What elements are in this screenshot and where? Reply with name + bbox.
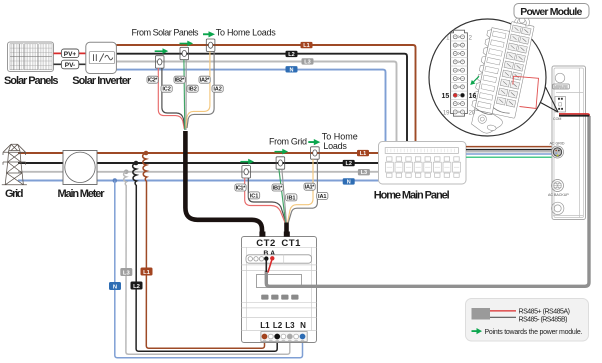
wire meter tap L1 brown coil <box>143 153 265 348</box>
wire meter tap L3 gray coil <box>124 172 290 354</box>
label badge solar N <box>286 66 298 73</box>
wire RS485- black <box>559 115 589 117</box>
svg-text:16: 16 <box>469 93 477 100</box>
svg-text:L3: L3 <box>285 321 295 330</box>
node pin 15 red <box>453 93 457 97</box>
grid tower <box>2 144 27 185</box>
svg-text:RS485- (RS485B): RS485- (RS485B) <box>519 317 568 324</box>
svg-text:AC GRID: AC GRID <box>550 141 565 145</box>
svg-text:L3: L3 <box>123 271 131 277</box>
svg-text:N: N <box>347 179 351 185</box>
label tag IA1 <box>317 192 328 200</box>
CT IC2* on solar L3 <box>155 48 169 68</box>
wire CT IA2 secondary pair <box>186 52 210 129</box>
legend box <box>466 299 589 342</box>
svg-text:IA2: IA2 <box>213 87 222 93</box>
red callout quad <box>513 76 539 108</box>
label tag IA2 <box>212 85 223 93</box>
label badge grid N <box>343 178 355 185</box>
wire B to RS485 cable <box>265 259 267 272</box>
main meter M1 <box>63 151 97 185</box>
label badge L3 on tap wire <box>120 268 132 277</box>
node pin 16 black <box>461 93 465 97</box>
svg-text:IC1: IC1 <box>250 193 259 199</box>
svg-text:IB1: IB1 <box>287 195 296 201</box>
CT IC1* on grid L3 <box>240 159 254 178</box>
wire AC grid bundle PE green <box>466 156 553 158</box>
svg-text:COM: COM <box>553 117 561 121</box>
node B terminal black dot <box>264 256 268 260</box>
wire PV+ red <box>54 52 86 54</box>
label Power Module box <box>514 4 589 19</box>
svg-text:L1: L1 <box>260 321 270 330</box>
label badge solar L2 <box>286 51 298 58</box>
wire meter tap N blue <box>115 181 303 358</box>
svg-text:Solar Panels: Solar Panels <box>4 75 59 87</box>
header From Solar Panels arrow To Home Loads <box>132 27 277 37</box>
node A terminal red dot <box>270 256 274 260</box>
svg-text:L1: L1 <box>303 43 309 49</box>
svg-text:IC1*: IC1* <box>236 186 246 192</box>
wire AC grid bundle L2 <box>466 149 553 151</box>
CT IA2* on solar L1 <box>206 39 215 51</box>
svg-text:CT1: CT1 <box>281 238 301 249</box>
label badge solar L3 <box>302 58 314 65</box>
svg-text:Grid: Grid <box>5 188 24 200</box>
label tag IC2 <box>161 85 172 93</box>
svg-text:19: 19 <box>443 111 450 117</box>
label badge solar L1 <box>301 42 313 49</box>
wire solar bus L1 <box>117 45 416 143</box>
label tag IB1 <box>286 194 297 202</box>
node meter L3 terminal <box>287 334 293 340</box>
svg-text:To Home: To Home <box>322 132 358 142</box>
node L3 junction <box>124 170 129 175</box>
svg-text:N: N <box>290 67 294 73</box>
svg-text:MEASURE: MEASURE <box>554 85 568 89</box>
svg-text:Power Module: Power Module <box>520 6 582 18</box>
CT IA1* on grid L1 <box>311 147 320 159</box>
svg-text:IA1: IA1 <box>318 194 327 200</box>
svg-text:PV-: PV- <box>65 62 75 69</box>
svg-text:Points towards the power modul: Points towards the power module. <box>485 329 583 336</box>
solar panels icon <box>8 42 54 72</box>
meter buttons <box>261 295 298 300</box>
label PV+ <box>61 49 78 58</box>
svg-text:IB1*: IB1* <box>273 186 283 192</box>
wire PV- black <box>54 63 86 65</box>
wire grid bus L3 <box>18 171 379 173</box>
connector 3D drawing <box>467 9 536 138</box>
label badge L1 on tap wire <box>141 268 153 277</box>
meter top terminal strip <box>246 255 312 263</box>
label tag IA1* <box>304 183 315 191</box>
svg-text:IC2*: IC2* <box>148 78 158 84</box>
wire A to RS485 cable red <box>268 258 272 272</box>
label tag IB2* <box>174 76 185 84</box>
svg-text:PV+: PV+ <box>64 51 77 58</box>
label tag IC1* <box>235 184 246 192</box>
svg-text:L3: L3 <box>361 170 367 176</box>
wire CT IC2 secondary pair <box>158 68 184 129</box>
wire RS485 gray cable from meter to COM <box>266 116 589 286</box>
svg-text:IC2: IC2 <box>162 87 171 93</box>
home main panel <box>379 142 467 185</box>
label meter L1 L2 L3 N <box>260 321 306 330</box>
svg-text:IB2: IB2 <box>188 87 197 93</box>
svg-text:L2: L2 <box>345 161 351 167</box>
connector COM pins <box>558 98 563 110</box>
svg-text:L1: L1 <box>360 151 366 157</box>
wire AC grid bundle L1 <box>466 146 553 148</box>
svg-text:IB2*: IB2* <box>175 78 185 84</box>
label badge grid L3 <box>358 169 370 176</box>
svg-text:RS485+ (RS485A): RS485+ (RS485A) <box>519 308 571 315</box>
solar inverter U1 <box>86 42 117 73</box>
label badge grid L2 <box>343 160 355 167</box>
svg-text:From Grid: From Grid <box>269 136 307 146</box>
cable CT1 entry <box>284 232 290 237</box>
green arrow to pin 16 <box>470 76 479 85</box>
wire solar bus L3 <box>117 62 397 143</box>
svg-text:Loads: Loads <box>323 141 347 151</box>
label tag IC1 <box>249 192 260 200</box>
cable CT2 thick <box>185 131 262 237</box>
node meter L1 terminal <box>262 334 268 340</box>
svg-text:L1: L1 <box>143 270 151 276</box>
svg-text:IA1*: IA1* <box>305 185 315 191</box>
svg-text:L2: L2 <box>288 52 294 58</box>
meter CT device <box>242 237 317 343</box>
leader lines to COM <box>541 87 559 112</box>
wire grid bus N <box>18 180 379 182</box>
wire solar bus L2 <box>117 54 408 143</box>
wire CT IA1 secondary pair <box>288 159 313 222</box>
label badge L2 on tap wire <box>131 282 143 291</box>
svg-text:IA2*: IA2* <box>200 78 210 84</box>
wire meter tap L2 black coil <box>133 163 278 351</box>
wire CT IB1 secondary pair <box>279 169 286 222</box>
node L2 junction <box>134 161 139 166</box>
meter bottom terminal strip <box>261 332 307 342</box>
label badge grid L1 <box>357 150 369 157</box>
label PV- <box>61 60 78 69</box>
svg-text:N: N <box>300 321 306 330</box>
connector pinout 2D <box>451 30 468 116</box>
wire CT IB2 secondary pair <box>183 60 186 130</box>
node L1 junction <box>144 151 149 156</box>
label tag IB1* <box>272 184 283 192</box>
svg-text:15: 15 <box>442 93 450 100</box>
meter display <box>257 275 302 288</box>
svg-text:N: N <box>113 285 117 291</box>
label tag IA2* <box>199 76 210 84</box>
CT IB1* on grid L2 <box>275 149 289 169</box>
node N junction <box>113 178 118 183</box>
svg-text:Main Meter: Main Meter <box>58 188 106 200</box>
svg-text:L2: L2 <box>133 284 140 290</box>
label tag IB2 <box>187 85 198 93</box>
wire grid bus L2 <box>18 162 379 164</box>
wire AC grid bundle N <box>466 153 553 155</box>
node meter L2 terminal <box>274 334 280 340</box>
wire grid bus L1 <box>18 152 379 154</box>
header From Grid arrow To Home Loads <box>269 132 358 152</box>
CT IB2* on solar L2 <box>180 41 194 60</box>
wire AC grid bundle L3 <box>466 151 553 153</box>
power module device <box>552 66 586 220</box>
svg-text:L2: L2 <box>273 321 283 330</box>
svg-text:20: 20 <box>469 111 476 117</box>
cable CT1 thick <box>284 223 289 237</box>
svg-text:Solar Inverter: Solar Inverter <box>72 75 132 87</box>
label tag IC2* <box>147 76 158 84</box>
svg-text:From Solar Panels: From Solar Panels <box>132 27 200 37</box>
label badge N on tap wire <box>109 282 121 291</box>
wire CT IC1 secondary pair <box>245 178 285 223</box>
svg-text:CT2: CT2 <box>256 238 275 249</box>
svg-text:To Home Loads: To Home Loads <box>216 27 277 37</box>
node meter N terminal <box>300 334 306 340</box>
cable CT2 entry <box>259 232 265 237</box>
svg-text:AC BACKUP: AC BACKUP <box>548 193 569 197</box>
magnifier circle <box>429 19 546 136</box>
svg-text:Home Main Panel: Home Main Panel <box>374 189 450 201</box>
wire solar bus N <box>117 70 386 143</box>
wire RS485+ red <box>559 114 589 116</box>
svg-text:L3: L3 <box>304 59 310 65</box>
